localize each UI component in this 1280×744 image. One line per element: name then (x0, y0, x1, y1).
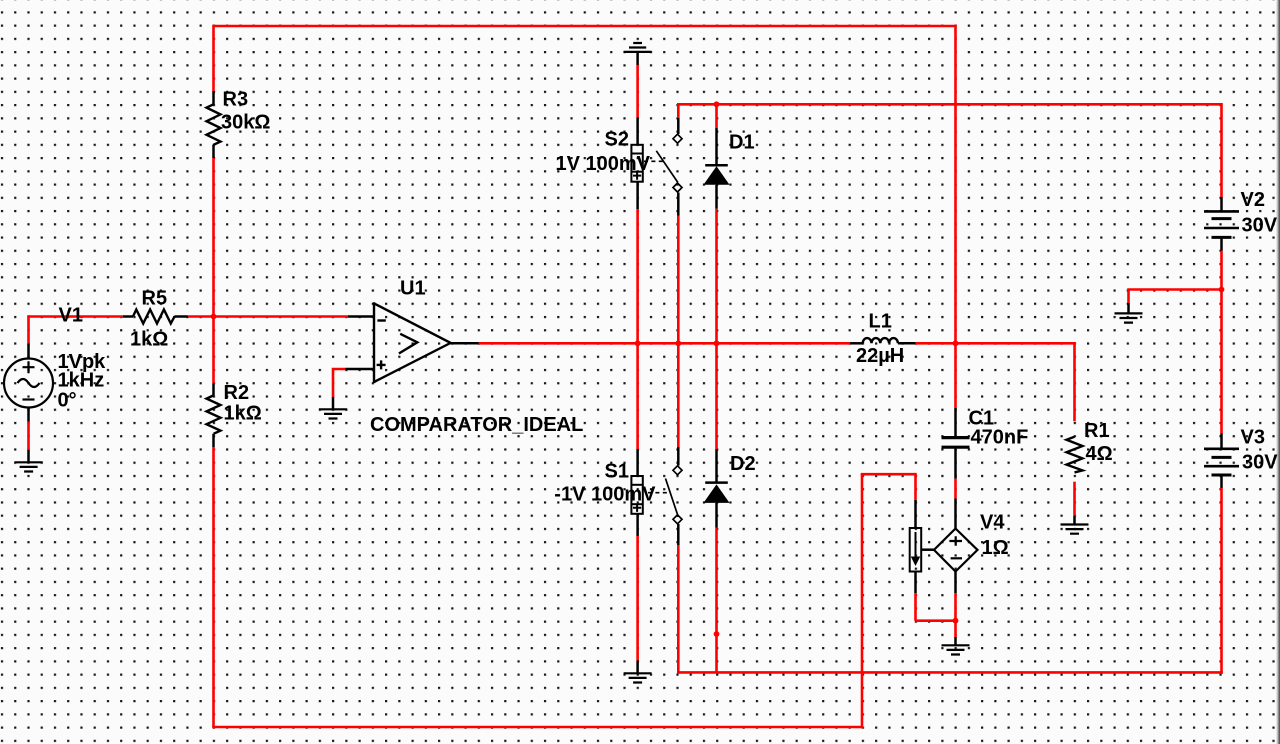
capacitor C1 (942, 438, 970, 448)
wire V2 bottom to node B (1220, 251, 1223, 434)
svg-text:30kΩ: 30kΩ (221, 112, 270, 134)
svg-text:S2: S2 (605, 129, 629, 151)
svg-text:R5: R5 (142, 288, 168, 310)
wire S2 lower contact to node / S1 upper contact (677, 216, 680, 448)
wire V2 top vertical (1220, 103, 1223, 197)
source V1 (AC) (4, 359, 53, 408)
battery V2 (1204, 211, 1239, 237)
pin D2 bottom (715, 503, 718, 528)
pin S1 contact lower (677, 524, 680, 545)
pin L1 left (850, 342, 863, 345)
ground below V1 (15, 462, 43, 471)
wire op-amp plus input stub (333, 368, 346, 397)
svg-text:1kΩ: 1kΩ (130, 329, 168, 351)
pin V2 bottom (1220, 239, 1223, 251)
pin V2 top (1220, 197, 1223, 211)
resistor R5 (133, 310, 175, 324)
pin S1 control ground stub (636, 661, 639, 674)
ground right middle (1115, 313, 1143, 322)
V4 current sense box (910, 528, 922, 572)
wire sense loop top horizontal (861, 473, 916, 476)
pin S2 contact upper (677, 118, 680, 134)
diode D2 (704, 483, 730, 503)
svg-text:R2: R2 (224, 382, 250, 404)
wire D1 bottom to D2 top (715, 209, 718, 449)
svg-text:470nF: 470nF (971, 427, 1029, 449)
svg-text:1kΩ: 1kΩ (224, 403, 262, 425)
svg-text:1Ω: 1Ω (982, 537, 1009, 559)
pin D2 top (715, 449, 718, 482)
wire +30V rail horizontal (678, 103, 1221, 106)
switch S1 contacts and arm (666, 466, 683, 524)
svg-text:4Ω: 4Ω (1086, 443, 1113, 465)
pin op-amp minus input (348, 315, 374, 318)
pin V1 top (27, 344, 30, 359)
junction D chain at output (714, 340, 720, 346)
pin C1 bottom (954, 449, 957, 479)
wire sense box top vertical (914, 473, 917, 500)
pin D1 top (715, 128, 718, 165)
wire op-amp output to L1 (479, 342, 851, 345)
svg-text:-1V 100mV: -1V 100mV (554, 484, 656, 506)
svg-text:30V: 30V (1242, 452, 1278, 474)
wire -30V rail horizontal (677, 671, 1223, 674)
svg-text:1V 100mV: 1V 100mV (556, 153, 651, 175)
wire V1 top vertical (27, 315, 30, 344)
svg-text:V1: V1 (59, 305, 83, 327)
inductor L1 (863, 338, 898, 343)
pin V4 bottom (954, 572, 957, 594)
svg-text:L1: L1 (869, 311, 892, 333)
wire node B to mid ground (1129, 288, 1223, 303)
svg-text:R3: R3 (223, 89, 249, 111)
wire R1 bottom to ground (1073, 482, 1076, 516)
pin R5 right (175, 315, 188, 318)
pin op-amp ground stub (332, 397, 335, 409)
op-amp U1 (374, 302, 451, 383)
wire left vertical R2 bottom to bottom rail (212, 447, 215, 727)
pin sense box top (914, 500, 917, 528)
svg-text:0°: 0° (58, 390, 77, 412)
wire S2 control top (from ground) (636, 64, 639, 117)
pin R2 bottom (212, 434, 215, 447)
pin S1 control bottom (636, 514, 639, 536)
wire V3 bottom vertical (1220, 488, 1223, 674)
wire D1 top stub (715, 104, 718, 128)
svg-text:COMPARATOR_IDEAL: COMPARATOR_IDEAL (370, 414, 583, 436)
switch S2 dashed link (644, 160, 663, 162)
ground above S2 control (inverted) (624, 43, 652, 52)
junction S2 control at output (635, 340, 641, 346)
switch S1 dashed link (648, 492, 670, 494)
junction L1/C1 node (953, 340, 959, 346)
pin V1 ground stub (27, 450, 30, 462)
wire sense loop vertical (861, 474, 864, 728)
wire R5 to op-amp minus input (188, 315, 348, 318)
right edge border strip (1277, 0, 1280, 744)
resistor R1 (1067, 437, 1083, 473)
pin V4 ground stub (954, 637, 957, 645)
pin R3 bottom (212, 145, 215, 158)
pin V3 bottom (1220, 476, 1223, 488)
wire V1 to R5 (29, 315, 123, 318)
pin D1 bottom (715, 185, 718, 209)
wire left vertical R3 bottom to node A (212, 158, 215, 317)
svg-text:22µH: 22µH (856, 345, 904, 367)
junction V4 bottom node (953, 618, 959, 624)
wire C1 node to C1 top (954, 343, 957, 408)
wire S2 contact top stub (677, 103, 680, 118)
wire left vertical node A to R2 top (212, 317, 215, 384)
ground below V4 (942, 645, 970, 654)
pin S1 contact upper (677, 447, 680, 466)
junction V2/V3 node B (1219, 287, 1225, 293)
pin sense box bottom (914, 572, 917, 594)
pin L1 right (898, 342, 916, 345)
wire S1 lower contact down to -30V rail (677, 545, 680, 674)
pin mid ground stub (1127, 303, 1130, 313)
resistor R3 (207, 104, 221, 145)
ground below op-amp plus input (319, 409, 347, 418)
pin op-amp output (451, 342, 479, 345)
wire S1 control bottom to ground (636, 536, 639, 661)
pin R3 top (212, 91, 215, 104)
wire V4 bottom to ground (954, 593, 957, 637)
junction D1 at +30V rail (714, 101, 720, 107)
ground below R1 (1061, 525, 1089, 534)
pin R5 left (123, 315, 133, 318)
svg-text:D1: D1 (729, 132, 755, 154)
diode D1 (704, 165, 730, 185)
pin C1 top (954, 408, 957, 436)
wire top rail from R3 top to C1 column (214, 25, 956, 28)
pin S2 contact lower (677, 193, 680, 216)
switch S1 control box (631, 476, 642, 514)
wire sense box bottom vertical (914, 593, 917, 621)
svg-text:1kHz: 1kHz (58, 370, 105, 392)
pin V4 top (954, 499, 957, 529)
pin sense box to diamond (921, 548, 935, 551)
wire R1 top vertical (1073, 342, 1076, 421)
battery V3 (1204, 449, 1239, 475)
pin S1 control top (636, 449, 639, 476)
junction D2 lower node (714, 631, 720, 637)
pin V1 bottom (27, 408, 30, 422)
wire C1 column top vertical (954, 25, 957, 344)
wire L1 to R1 corner (915, 342, 1074, 345)
pin R2 top (212, 384, 215, 396)
pin R1 ground stub (1073, 516, 1076, 525)
pin V3 top (1220, 434, 1223, 448)
wire bottom rail (212, 726, 862, 729)
svg-text:R1: R1 (1084, 420, 1110, 442)
wire S2 control bottom to S1 control top (636, 209, 639, 449)
svg-text:V2: V2 (1241, 189, 1265, 211)
svg-text:V4: V4 (980, 512, 1005, 534)
pin op-amp plus input (346, 368, 375, 371)
switch S2 control box (631, 145, 642, 182)
svg-text:D2: D2 (730, 453, 756, 475)
svg-text:V3: V3 (1241, 427, 1265, 449)
switch S2 contacts and arm (656, 134, 682, 192)
source V4 (CCVS diamond) (934, 529, 978, 572)
junction S contacts at output (675, 340, 681, 346)
wire V1 bottom to ground (27, 422, 30, 450)
svg-text:30V: 30V (1242, 215, 1278, 237)
ground below S1 control (624, 673, 652, 682)
pin S2 control ground stub (636, 52, 639, 65)
resistor R2 (207, 395, 221, 433)
wire sense bottom horizontal to V4 node (916, 619, 956, 622)
svg-text:S1: S1 (605, 461, 629, 483)
wire C1 bottom to V4 top (954, 479, 957, 499)
svg-text:U1: U1 (400, 278, 426, 300)
wire D2 bottom to -30V rail (715, 528, 718, 673)
junction node A (R5/R3/R2) (211, 314, 217, 320)
wire left vertical above R3 (212, 25, 215, 91)
pin S2 control top (636, 118, 639, 145)
pin S2 control bottom (636, 182, 639, 209)
